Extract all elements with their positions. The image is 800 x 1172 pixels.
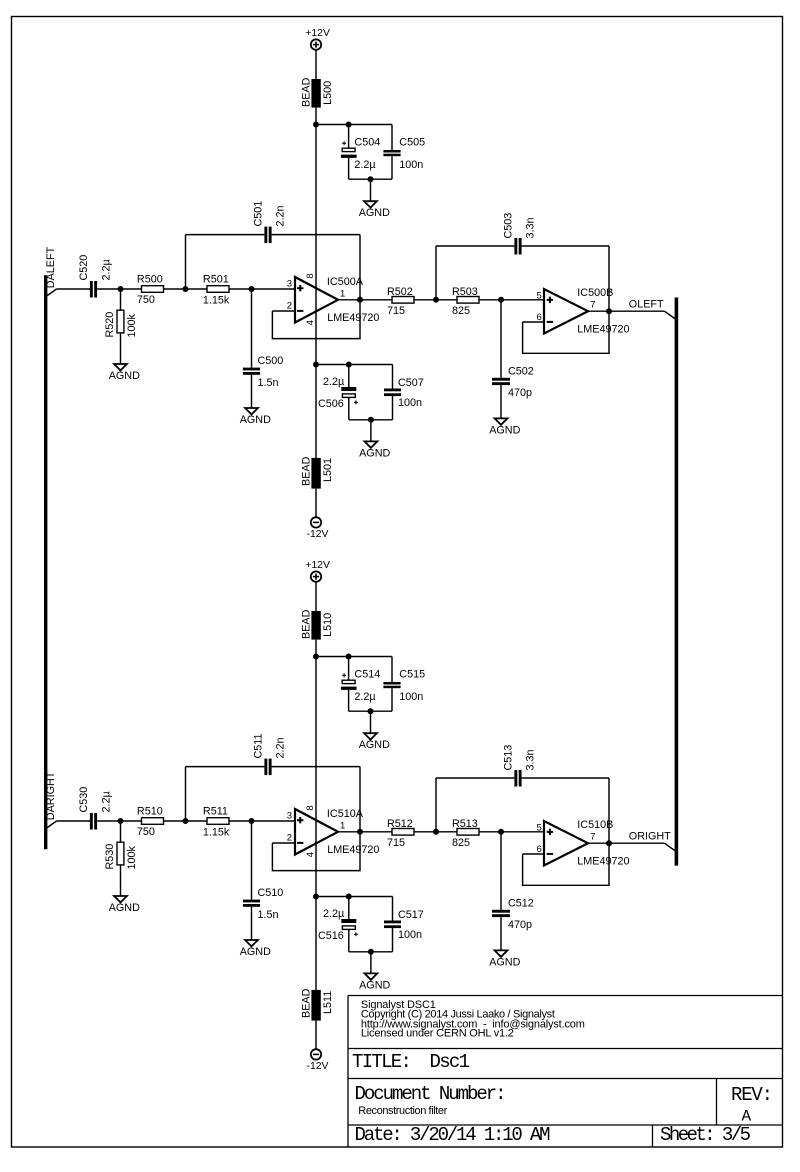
capacitor C504 [341, 125, 380, 180]
junction [313, 122, 319, 128]
svg-text:2: 2 [287, 833, 292, 844]
junction [498, 829, 504, 835]
svg-text:C515: C515 [399, 669, 425, 681]
wire [164, 288, 208, 290]
svg-text:AGND: AGND [359, 207, 390, 219]
svg-text:C511: C511 [253, 733, 265, 758]
svg-text:TITLE: Dsc1: TITLE: Dsc1 [352, 1051, 470, 1073]
op-amp IC510B [537, 819, 630, 868]
wire [523, 853, 544, 855]
wire [338, 831, 392, 833]
svg-text:Sheet: 3/5: Sheet: 3/5 [660, 1124, 751, 1146]
wire [315, 897, 317, 990]
svg-text:BEAD: BEAD [301, 77, 313, 107]
ferrite bead L510 [301, 609, 334, 639]
wire rail [315, 108, 317, 365]
title block frame [348, 996, 783, 1148]
sheet cell [660, 1124, 751, 1146]
svg-text:R520: R520 [104, 312, 116, 338]
date row [355, 1124, 551, 1146]
svg-text:470p: 470p [508, 387, 532, 399]
wire rail [315, 640, 317, 897]
junction [357, 297, 363, 303]
junction [346, 894, 352, 900]
svg-text:2.2n: 2.2n [275, 737, 287, 758]
junction [346, 654, 352, 660]
svg-text:R511: R511 [203, 805, 228, 817]
svg-text:IC510B: IC510B [577, 819, 613, 831]
wire [315, 582, 317, 611]
op-amp IC500B [537, 287, 630, 336]
svg-text:R512: R512 [387, 818, 413, 830]
capacitor C520 [78, 255, 112, 298]
svg-text:R502: R502 [387, 286, 413, 298]
svg-text:715: 715 [387, 837, 405, 849]
svg-text:BEAD: BEAD [301, 988, 313, 1018]
svg-text:R503: R503 [452, 286, 478, 298]
wire [414, 831, 457, 833]
junction [498, 297, 504, 303]
junction [183, 286, 189, 292]
svg-text:C530: C530 [78, 787, 90, 813]
svg-text:C520: C520 [78, 255, 90, 281]
wire [315, 489, 317, 518]
bus OLEFT/ORIGHT [675, 298, 679, 866]
wire feedback [523, 843, 609, 885]
svg-text:C514: C514 [354, 669, 380, 681]
svg-text:C513: C513 [503, 745, 515, 771]
svg-text:R500: R500 [137, 273, 163, 285]
svg-text:1.5n: 1.5n [258, 909, 279, 921]
wire [229, 820, 295, 822]
svg-text:100k: 100k [126, 845, 138, 869]
svg-text:R530: R530 [104, 844, 116, 870]
op-amp IC500A [287, 273, 380, 325]
power -12V [307, 517, 329, 540]
svg-text:Document Number:: Document Number: [355, 1083, 507, 1105]
svg-text:LME49720: LME49720 [577, 856, 629, 868]
svg-text:L510: L510 [322, 613, 334, 637]
junction [368, 708, 374, 714]
svg-text:C512: C512 [508, 897, 534, 909]
svg-text:C510: C510 [258, 887, 284, 899]
node DALEFT [45, 246, 57, 296]
node ORIGHT [588, 831, 675, 851]
bus DALEFT/DARIGHT [44, 275, 47, 849]
ground AGND [489, 418, 520, 436]
svg-text:ORIGHT: ORIGHT [629, 831, 671, 843]
capacitor C510 [243, 821, 283, 940]
svg-text:100n: 100n [399, 159, 423, 171]
svg-text:5: 5 [537, 290, 542, 301]
svg-text:5: 5 [537, 822, 542, 833]
ferrite bead L511 [301, 988, 334, 1020]
ground AGND [359, 733, 390, 751]
title block info text [361, 999, 585, 1040]
svg-text:IC500B: IC500B [577, 287, 613, 299]
capacitor C505 [383, 125, 425, 180]
junction [368, 949, 374, 955]
wire feedback [523, 311, 609, 353]
svg-text:Licensed under CERN OHL v1.2: Licensed under CERN OHL v1.2 [361, 1028, 514, 1040]
svg-text:4: 4 [305, 852, 316, 857]
junction [183, 818, 189, 824]
svg-text:R510: R510 [137, 805, 163, 817]
svg-text:LME49720: LME49720 [327, 312, 379, 324]
capacitor C517 [384, 897, 424, 952]
svg-text:+12V: +12V [305, 28, 330, 39]
wire [272, 310, 295, 312]
power +12V [305, 28, 330, 50]
ferrite bead L501 [301, 456, 334, 488]
resistor R510 [137, 805, 164, 838]
wire [316, 896, 393, 898]
wire [97, 820, 141, 822]
capacitor C512 [492, 832, 534, 951]
resistor R513 [452, 818, 479, 849]
wire [414, 299, 457, 301]
junction [368, 176, 374, 182]
junction [249, 286, 255, 292]
title row [352, 1051, 470, 1073]
junction [118, 286, 124, 292]
ground AGND [240, 940, 271, 958]
svg-text:L500: L500 [322, 81, 334, 105]
capacitor C511 [186, 733, 361, 831]
junction [368, 417, 374, 423]
svg-text:-12V: -12V [307, 1061, 329, 1072]
svg-text:+12V: +12V [305, 560, 330, 571]
wire [57, 820, 91, 822]
svg-text:7: 7 [590, 299, 595, 310]
svg-text:1.5n: 1.5n [258, 377, 279, 389]
svg-text:C507: C507 [398, 377, 424, 389]
wire [479, 299, 544, 301]
capacitor C507 [384, 365, 424, 420]
svg-text:3: 3 [287, 811, 292, 822]
junction [118, 818, 124, 824]
svg-text:AGND: AGND [359, 739, 390, 751]
svg-text:8: 8 [305, 273, 316, 278]
svg-text:BEAD: BEAD [301, 609, 313, 639]
node OLEFT [588, 299, 675, 319]
ground AGND [359, 441, 390, 459]
svg-text:C501: C501 [253, 201, 265, 227]
wire [338, 299, 392, 301]
svg-text:REV:: REV: [731, 1084, 773, 1106]
svg-text:AGND: AGND [359, 447, 390, 459]
svg-text:2.2µ: 2.2µ [323, 908, 344, 920]
svg-text:AGND: AGND [109, 370, 140, 382]
capacitor C514 [341, 657, 380, 712]
wire [349, 710, 392, 712]
svg-text:AGND: AGND [240, 414, 271, 426]
svg-text:2.2µ: 2.2µ [354, 159, 375, 171]
svg-text:100n: 100n [399, 691, 423, 703]
svg-text:2.2µ: 2.2µ [323, 376, 344, 388]
svg-text:2.2µ: 2.2µ [354, 691, 375, 703]
resistor R503 [452, 286, 479, 317]
wire [272, 842, 295, 844]
svg-text:3.3n: 3.3n [525, 217, 537, 238]
junction [313, 362, 319, 368]
svg-text:2.2µ: 2.2µ [100, 259, 112, 280]
wire feedback [272, 832, 360, 871]
wire [316, 124, 392, 126]
svg-text:C504: C504 [354, 137, 380, 149]
node DARIGHT [45, 771, 57, 828]
capacitor C506 [318, 365, 358, 420]
svg-text:BEAD: BEAD [301, 456, 313, 486]
svg-text:L501: L501 [322, 458, 334, 482]
wire [57, 288, 91, 290]
svg-text:-12V: -12V [307, 529, 329, 540]
svg-text:6: 6 [537, 312, 542, 323]
svg-text:C502: C502 [508, 365, 534, 377]
svg-text:C503: C503 [503, 213, 515, 239]
wire [370, 420, 372, 442]
wire [229, 288, 295, 290]
wire [479, 831, 544, 833]
resistor R500 [137, 273, 164, 306]
junction [313, 654, 319, 660]
svg-text:1: 1 [340, 820, 345, 831]
svg-text:825: 825 [452, 305, 470, 317]
power +12V [305, 560, 330, 582]
svg-text:3: 3 [287, 279, 292, 290]
ground AGND [109, 896, 140, 914]
ground AGND [240, 408, 271, 426]
svg-text:1.15k: 1.15k [203, 826, 230, 838]
wire [316, 656, 392, 658]
svg-text:2: 2 [287, 301, 292, 312]
svg-text:6: 6 [537, 844, 542, 855]
power -12V [307, 1049, 329, 1072]
ground AGND [489, 950, 520, 968]
wire [370, 179, 372, 201]
junction [346, 362, 352, 368]
svg-text:LME49720: LME49720 [327, 844, 379, 856]
svg-text:100n: 100n [398, 397, 422, 409]
junction [313, 894, 319, 900]
capacitor C500 [243, 289, 283, 408]
svg-text:C505: C505 [399, 137, 425, 149]
junction [346, 122, 352, 128]
svg-text:750: 750 [137, 294, 155, 306]
svg-text:Date: 3/20/14 1:10 AM: Date: 3/20/14 1:10 AM [355, 1124, 551, 1146]
wire [349, 178, 392, 180]
svg-text:3.3n: 3.3n [525, 749, 537, 770]
capacitor C515 [383, 657, 425, 712]
svg-text:IC500A: IC500A [327, 276, 364, 288]
capacitor C513 [436, 745, 609, 844]
resistor R502 [387, 286, 414, 317]
svg-text:1.15k: 1.15k [203, 294, 230, 306]
wire [370, 952, 372, 974]
junction [249, 818, 255, 824]
resistor R501 [203, 273, 230, 306]
capacitor C502 [492, 300, 534, 419]
op-amp IC510A [287, 805, 380, 857]
svg-text:7: 7 [590, 831, 595, 842]
svg-text:2.2µ: 2.2µ [100, 791, 112, 812]
capacitor C503 [436, 213, 609, 312]
svg-text:100n: 100n [398, 929, 422, 941]
svg-text:1: 1 [340, 288, 345, 299]
svg-text:4: 4 [305, 320, 316, 325]
svg-text:825: 825 [452, 837, 470, 849]
capacitor C530 [78, 787, 112, 830]
junction [606, 840, 612, 846]
svg-text:C516: C516 [318, 930, 344, 942]
resistor R511 [203, 805, 230, 838]
capacitor C516 [318, 897, 358, 952]
svg-text:750: 750 [137, 826, 155, 838]
capacitor C501 [186, 201, 361, 300]
svg-text:470p: 470p [508, 919, 532, 931]
svg-text:Reconstruction filter: Reconstruction filter [358, 1105, 447, 1117]
wire [370, 711, 372, 733]
svg-text:C517: C517 [398, 909, 424, 921]
wire [315, 365, 317, 458]
wire [315, 1021, 317, 1050]
wire [316, 364, 393, 366]
ground AGND [359, 973, 390, 991]
svg-text:A: A [742, 1108, 752, 1126]
ground AGND [359, 201, 390, 219]
svg-text:AGND: AGND [109, 902, 140, 914]
svg-text:100k: 100k [126, 313, 138, 337]
wire feedback [272, 300, 360, 339]
svg-text:R513: R513 [452, 818, 478, 830]
svg-text:IC510A: IC510A [327, 808, 364, 820]
wire [97, 288, 141, 290]
rev cell [731, 1084, 773, 1126]
svg-text:R501: R501 [203, 273, 229, 285]
wire [523, 321, 544, 323]
document number row [355, 1083, 507, 1117]
wire [164, 820, 208, 822]
wire [349, 419, 393, 421]
ferrite bead L500 [301, 77, 334, 107]
svg-text:AGND: AGND [489, 424, 520, 436]
svg-text:LME49720: LME49720 [577, 324, 629, 336]
wire [315, 50, 317, 79]
junction [357, 829, 363, 835]
svg-text:C500: C500 [258, 355, 284, 367]
svg-text:715: 715 [387, 305, 405, 317]
wire [349, 951, 393, 953]
svg-text:AGND: AGND [359, 979, 390, 991]
svg-text:AGND: AGND [240, 946, 271, 958]
junction [606, 308, 612, 314]
ground AGND [109, 364, 140, 382]
junction [433, 829, 439, 835]
resistor R520 [104, 289, 138, 364]
svg-text:8: 8 [305, 805, 316, 810]
svg-text:L511: L511 [322, 991, 334, 1014]
svg-text:OLEFT: OLEFT [629, 299, 664, 311]
svg-text:AGND: AGND [489, 956, 520, 968]
resistor R512 [387, 818, 414, 849]
svg-text:2.2n: 2.2n [275, 205, 287, 226]
svg-text:C506: C506 [318, 398, 344, 410]
junction [433, 297, 439, 303]
resistor R530 [104, 821, 138, 896]
